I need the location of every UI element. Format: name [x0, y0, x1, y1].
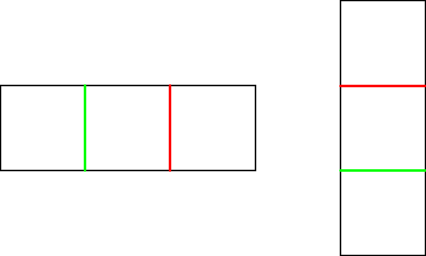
green divider (horizontal strip) [84, 86, 87, 171]
green divider (vertical strip) [341, 169, 426, 172]
vertical strip outline (3 squares) [341, 1, 426, 256]
red divider (horizontal strip) [169, 86, 172, 171]
horizontal strip outline (3 squares) [1, 86, 256, 171]
red divider (vertical strip) [341, 85, 426, 88]
